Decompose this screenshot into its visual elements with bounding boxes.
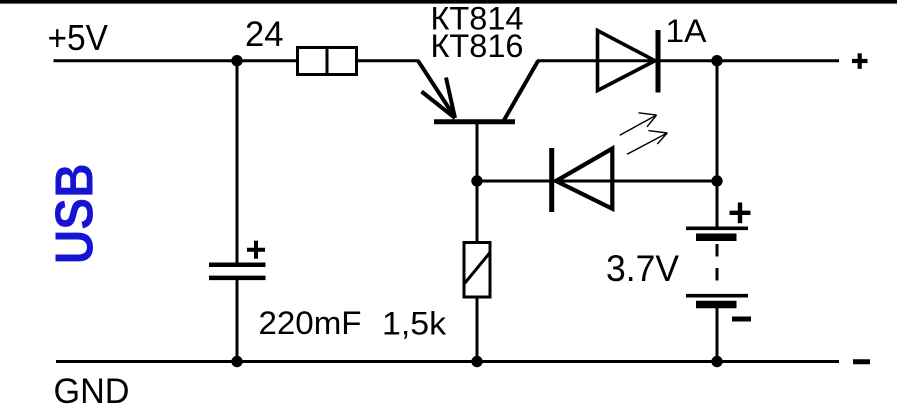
LED VD2 light arrow 1 bbox=[620, 113, 657, 135]
wire base node down to resistor R2 bbox=[476, 181, 479, 242]
wire +5V junction down to capacitor C1 bbox=[236, 61, 239, 263]
capacitor C1 polarity + bbox=[247, 241, 265, 259]
junction GND rail / resistor R2 bbox=[471, 356, 482, 367]
svg-text:3.7V: 3.7V bbox=[606, 248, 679, 289]
terminal - output bbox=[853, 359, 870, 364]
svg-text:1A: 1A bbox=[666, 13, 708, 49]
junction + rail / battery branch bbox=[711, 55, 722, 66]
junction GND rail / capacitor C1 bbox=[231, 356, 242, 367]
junction GND rail / battery GB1 bbox=[711, 356, 722, 367]
wire capacitor C1 to ground rail bbox=[236, 278, 239, 362]
battery GB1 cell 1 bbox=[686, 228, 748, 237]
LED VD2 bbox=[552, 148, 613, 212]
wire transistor VT1 base down to base node bbox=[476, 122, 479, 181]
svg-text:220mF: 220mF bbox=[259, 305, 362, 341]
capacitor C1 plates bbox=[209, 265, 266, 278]
wire GND rail bbox=[56, 360, 839, 363]
wire diode VD1 to + output bbox=[660, 59, 839, 62]
svg-text:1,5k: 1,5k bbox=[382, 306, 447, 342]
wire resistor R1 to transistor VT1 emitter bbox=[358, 59, 419, 62]
diode VD1 bbox=[598, 30, 659, 93]
battery GB1 cell 2 bbox=[686, 296, 748, 305]
svg-text:КТ816: КТ816 bbox=[431, 28, 524, 64]
junction +5V rail / capacitor C1 bbox=[231, 55, 242, 66]
terminal + output bbox=[852, 53, 868, 69]
transistor VT1 type label KT814 / KT816 bbox=[431, 1, 524, 65]
resistor R2 body with diagonal bbox=[464, 243, 490, 298]
battery GB1 polarity + bbox=[730, 203, 751, 224]
svg-text:GND: GND bbox=[54, 371, 130, 411]
LED VD2 light arrow 2 bbox=[627, 131, 667, 155]
wire transistor VT1 collector to diode VD1 bbox=[537, 59, 660, 62]
wire battery branch from + rail junction down to battery GB1 bbox=[716, 61, 719, 227]
top border line bbox=[0, 0, 897, 4]
junction base node bbox=[471, 175, 482, 186]
battery GB1 polarity - bbox=[732, 317, 751, 322]
transistor VT1 (PNP) bbox=[418, 61, 538, 122]
svg-text:24: 24 bbox=[245, 15, 284, 54]
battery GB1 dashed link bbox=[716, 244, 719, 292]
junction LED branch / battery branch bbox=[711, 175, 722, 186]
svg-text:+5V: +5V bbox=[48, 17, 109, 58]
wire base node to LED VD2 and battery branch bbox=[477, 180, 717, 183]
svg-text:USB: USB bbox=[45, 163, 105, 264]
wire resistor R2 to ground rail bbox=[476, 298, 479, 362]
resistor R1 body bbox=[298, 47, 357, 77]
wire battery GB1 to ground rail bbox=[716, 308, 719, 362]
wire +5V rail from input to resistor R1 bbox=[54, 59, 298, 62]
